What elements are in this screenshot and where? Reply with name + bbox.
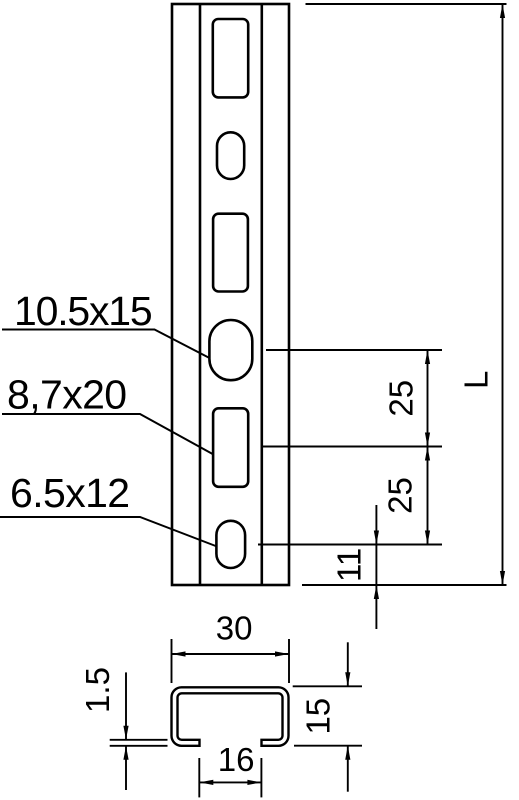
svg-text:15: 15 — [299, 698, 336, 735]
slot hole 8.7x20 third — [213, 408, 248, 487]
dim 1.5 vertical — [125, 672, 127, 739]
dim 1.5 extension lines — [110, 739, 168, 741]
oblong hole 6.5x12 upper — [217, 132, 244, 179]
svg-text:30: 30 — [216, 610, 253, 647]
dim 11 vertical — [375, 505, 377, 629]
svg-text:1.5: 1.5 — [79, 667, 116, 713]
leader line 8,7x20 — [2, 414, 214, 455]
dim 15 extension lines — [293, 685, 362, 687]
svg-text:8,7x20: 8,7x20 — [7, 372, 127, 418]
svg-text:10.5x15: 10.5x15 — [14, 288, 152, 334]
dim line from 6.5x12 hole centre — [258, 544, 442, 546]
slot hole 8.7x20 top — [213, 19, 248, 97]
slot hole 8.7x20 second — [213, 214, 248, 292]
oblong hole 10.5x15 — [209, 320, 252, 380]
svg-text:11: 11 — [330, 548, 367, 582]
svg-text:25: 25 — [383, 380, 420, 417]
svg-text:L: L — [458, 371, 495, 389]
leader line 10.5x15 — [2, 330, 210, 359]
dim line from 10.5x15 hole centre — [266, 349, 442, 351]
dim line from 8,7x20 hole centre — [263, 446, 442, 448]
dim 30 extension lines — [171, 639, 173, 683]
svg-text:25: 25 — [382, 477, 419, 514]
C-profile cross-section — [172, 687, 289, 746]
extension line top for L — [306, 3, 507, 5]
dim 30 line — [172, 653, 290, 655]
rail inner right bend line — [260, 4, 263, 585]
dim L vertical — [502, 4, 504, 585]
svg-text:6.5x12: 6.5x12 — [10, 470, 130, 516]
svg-text:16: 16 — [218, 741, 255, 778]
leader line 6.5x12 — [0, 517, 217, 547]
rail outer body rect — [172, 4, 289, 585]
dim 25 upper vertical — [427, 350, 429, 447]
dim 16 line — [199, 781, 261, 783]
dim 16 extension lines — [198, 758, 200, 797]
rail inner left bend line — [199, 4, 202, 585]
dim 15 vertical — [347, 642, 349, 686]
oblong hole 6.5x12 bottom — [216, 521, 245, 568]
dim 25 lower vertical — [427, 447, 429, 545]
extension line bottom for L — [302, 584, 507, 586]
